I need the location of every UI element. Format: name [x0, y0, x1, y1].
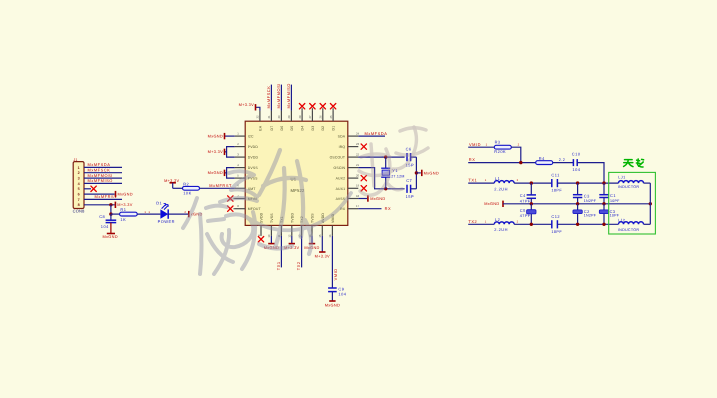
- svg-text:CON8: CON8: [73, 208, 85, 213]
- power port M+3.3V at U1 pin 15: [315, 236, 330, 259]
- no-connect X on U1 top pin: [299, 104, 304, 111]
- power port MxGND at crystal: [422, 170, 439, 176]
- connector J1 CON8 body: [73, 158, 85, 213]
- svg-text:OSCIN: OSCIN: [334, 166, 346, 170]
- svg-text:26: 26: [319, 115, 323, 119]
- node mid rail at C3: [576, 202, 579, 205]
- svg-text:2.2UH: 2.2UH: [494, 227, 508, 232]
- svg-text:1K: 1K: [120, 217, 126, 222]
- wire with net label MxMFMOSI at U1 top pin: [276, 83, 282, 111]
- svg-text:104: 104: [572, 167, 580, 172]
- node top rail at C4: [530, 181, 533, 184]
- svg-text:SDA: SDA: [338, 135, 346, 139]
- power port MxGND below C8: [103, 223, 118, 239]
- svg-text:21: 21: [356, 163, 360, 167]
- svg-text:2: 2: [78, 171, 80, 175]
- LED D1 POWER: [156, 200, 175, 223]
- op-amp U1 body (MF522 reader IC): [245, 121, 348, 225]
- no-connect X on J1 pin 5: [84, 186, 96, 191]
- no-connect X on U1 pin 23 IRQ: [361, 144, 366, 149]
- wire L2 to C12: [514, 220, 552, 224]
- svg-text:6: 6: [78, 193, 80, 197]
- node bottom rail at C3b: [602, 223, 605, 226]
- wire C12 to antenna: [557, 223, 618, 225]
- crystal Y1 27.12M: [381, 157, 405, 189]
- svg-text:MxMFMOSI: MxMFMOSI: [88, 173, 113, 178]
- U1 left pin 3 DVDD: [235, 153, 259, 160]
- no-connect X on U1 pin 19 AUX1: [361, 186, 366, 191]
- svg-text:12: 12: [288, 234, 292, 238]
- svg-text:23: 23: [356, 142, 360, 146]
- svg-text:LJ2: LJ2: [618, 219, 625, 223]
- svg-text:MxGND: MxGND: [484, 201, 499, 206]
- svg-text:28: 28: [298, 115, 302, 119]
- svg-text:VMID: VMID: [333, 268, 338, 280]
- wire net MxMFMISO from J1 pin 4: [84, 178, 122, 183]
- svg-text:MxMFMOSI: MxMFMOSI: [276, 83, 281, 108]
- svg-text:D7: D7: [270, 126, 274, 131]
- connector J1 pin 7 number: [78, 198, 80, 202]
- svg-text:D5: D5: [290, 126, 294, 131]
- svg-text:MxMFRST: MxMFRST: [209, 183, 232, 188]
- svg-text:15P: 15P: [406, 194, 415, 199]
- connector J1 pin 5 number: [78, 187, 80, 191]
- U1 right pin 21 OSCIN: [334, 163, 360, 170]
- svg-text:M+3.3V: M+3.3V: [208, 149, 223, 154]
- svg-text:TX2: TX2: [468, 219, 477, 224]
- resistor R1 1K: [120, 207, 138, 222]
- U1 bottom pin 15 AVDD: [318, 213, 325, 238]
- power port xGND after LED: [189, 211, 203, 217]
- svg-text:INDUCTOR: INDUCTOR: [618, 228, 639, 232]
- capacitor C2 1N2PF shunt: [573, 204, 597, 225]
- node top rail at C1/RX: [602, 181, 605, 184]
- U1 left pin 5 PVSS: [235, 174, 258, 181]
- svg-text:3: 3: [78, 177, 80, 181]
- node bottom rail at C2: [576, 223, 579, 226]
- svg-text:R3: R3: [495, 140, 501, 145]
- node bottom rail at C5: [530, 223, 533, 226]
- node on J1 pin 8 wire: [109, 203, 112, 206]
- U1 top pin 27 D3: [308, 111, 315, 131]
- svg-text:MxGND: MxGND: [103, 234, 118, 239]
- U1 top pin 29 D5: [287, 111, 294, 131]
- wire net MxMFSDA from J1 pin 1: [84, 162, 122, 167]
- svg-text:EA: EA: [258, 125, 262, 130]
- svg-text:D2: D2: [321, 126, 325, 131]
- U1 top pin 26 D2: [319, 111, 326, 131]
- svg-text:MxMFSDA: MxMFSDA: [365, 131, 388, 136]
- svg-text:10PF: 10PF: [610, 214, 620, 218]
- svg-text:TX2: TX2: [296, 261, 301, 270]
- capacitor C4 47PF shunt: [520, 183, 536, 204]
- svg-text:MxMFSDA: MxMFSDA: [88, 162, 111, 167]
- svg-text:16: 16: [328, 234, 332, 238]
- wire OSCOUT rail: [358, 156, 404, 158]
- svg-text:PVDD: PVDD: [248, 145, 259, 149]
- svg-text:POWER: POWER: [158, 219, 175, 224]
- svg-text:I2C: I2C: [248, 135, 254, 139]
- U1 right pin 19 AUX1: [336, 184, 360, 191]
- U1 left pin 2 PVDD: [235, 142, 259, 149]
- connector J1 pin 8 number: [78, 203, 80, 207]
- svg-text:M+3.3V: M+3.3V: [239, 102, 254, 107]
- U1 bottom pin 14 TVSS: [308, 213, 315, 238]
- svg-text:10K: 10K: [183, 191, 192, 196]
- svg-text:27: 27: [308, 115, 312, 119]
- capacitor C11 18PF series: [551, 173, 562, 193]
- power port M+3.3V at R2: [164, 178, 182, 188]
- inductor LJ2 INDUCTOR: [618, 219, 650, 233]
- capacitor C3 1N2PF shunt: [573, 183, 597, 204]
- power port MxGND at U1 pin 1: [208, 133, 235, 139]
- capacitor C1 10PF shunt: [599, 183, 620, 204]
- svg-text:104: 104: [338, 291, 346, 296]
- power port MxGND below C9: [325, 292, 340, 308]
- U1 right pin 20 AUX2: [336, 174, 360, 181]
- svg-text:R20K: R20K: [494, 149, 506, 154]
- capacitor C6 15P: [406, 147, 417, 168]
- wire net TX2 to L2: [468, 219, 494, 224]
- svg-text:OSCOUT: OSCOUT: [330, 156, 346, 160]
- svg-text:MxGND: MxGND: [118, 191, 133, 196]
- wire C11 to antenna nodes: [557, 182, 618, 184]
- wire net MxMFSDA from U1 pin 24: [358, 131, 387, 136]
- svg-text:DVDD: DVDD: [248, 156, 259, 160]
- U1 top pin 30 D6: [277, 111, 284, 131]
- svg-text:MxMFRST: MxMFRST: [95, 194, 118, 199]
- svg-text:INDUCTOR: INDUCTOR: [618, 185, 639, 189]
- svg-text:1N2PF: 1N2PF: [584, 199, 597, 203]
- wire net TX1 to L1: [468, 178, 494, 184]
- svg-text:C11: C11: [551, 173, 559, 178]
- svg-text:MFOUT: MFOUT: [248, 207, 262, 211]
- svg-text:R4: R4: [539, 156, 545, 161]
- U1 bottom pin 11 TX1: [277, 216, 284, 237]
- node mid rail at antenna: [649, 202, 652, 205]
- wire net TX2 from U1 pin 13: [296, 236, 301, 270]
- svg-text:25: 25: [329, 115, 333, 119]
- wire net RX from U1 pin 17: [358, 206, 391, 211]
- wire net TX1 from U1 pin 11: [276, 236, 281, 270]
- U1 bottom pin 12 TVDD: [288, 213, 295, 238]
- wire with net label MxMFSCK at U1 top pin: [266, 85, 272, 111]
- wire R3 to RX rail: [511, 142, 521, 162]
- svg-text:1N2PF: 1N2PF: [584, 214, 597, 218]
- svg-text:TVDD: TVDD: [290, 213, 294, 223]
- node at crystal bottom: [384, 187, 387, 190]
- power port MxGND at U1 pin 14: [304, 236, 319, 250]
- resistor R3 R20K: [494, 140, 511, 154]
- svg-text:10: 10: [267, 234, 271, 238]
- inductor L2 2.2UH: [494, 217, 514, 232]
- capacitor C10 104 series on RX: [572, 152, 581, 173]
- svg-text:TX1: TX1: [276, 261, 281, 270]
- svg-text:MxGND: MxGND: [208, 170, 223, 175]
- svg-text:C8: C8: [99, 214, 105, 219]
- svg-text:C5: C5: [520, 208, 526, 213]
- U1 left pin 1 I2C: [235, 132, 254, 139]
- no-connect X on U1 pin 8: [228, 206, 235, 211]
- svg-text:TVSS: TVSS: [311, 213, 315, 223]
- svg-text:C1: C1: [610, 193, 616, 198]
- svg-text:47PF: 47PF: [520, 214, 531, 218]
- wire junction to R1: [111, 213, 120, 215]
- wire down to LED branch: [110, 205, 112, 214]
- wire net RX rail: [468, 157, 536, 162]
- svg-text:20: 20: [356, 174, 360, 178]
- svg-text:R2: R2: [183, 181, 189, 186]
- svg-text:MxMFMISO: MxMFMISO: [286, 83, 291, 108]
- capacitor C9 104: [328, 286, 347, 296]
- U1 left pin 6 XMT: [235, 184, 257, 191]
- U1 bottom pin 16 VMID: [328, 213, 335, 237]
- antenna box (green): [609, 172, 656, 234]
- U1 right pin 17 RX: [340, 204, 359, 211]
- U1 right pin 23 IRQ: [339, 142, 360, 149]
- svg-text:RX: RX: [385, 206, 392, 211]
- svg-text:VMID: VMID: [469, 142, 481, 147]
- svg-text:C10: C10: [572, 152, 581, 157]
- svg-text:IRQ: IRQ: [339, 145, 346, 149]
- U1 bottom pin 9 SVDD: [257, 212, 264, 236]
- svg-text:DVSS: DVSS: [248, 166, 259, 170]
- no-connect X on U1 pin 20 AUX2: [361, 175, 366, 180]
- wire net VMID to R3: [468, 142, 494, 147]
- svg-text:10PF: 10PF: [610, 199, 620, 203]
- svg-text:C4: C4: [520, 193, 526, 198]
- wire L1 to C11: [514, 179, 552, 183]
- capacitor C5 47PF shunt: [520, 204, 536, 225]
- no-connect X on U1 top pin: [330, 104, 335, 111]
- wire net VMID from U1 pin 16: [332, 236, 337, 288]
- power port M+3.3V at U1 pin 32: [239, 102, 260, 110]
- svg-text:C6: C6: [406, 147, 412, 152]
- U1 left pin 4 DVSS: [235, 163, 259, 170]
- svg-text:TVSS: TVSS: [270, 213, 274, 223]
- node mid rail at C1: [602, 202, 605, 205]
- capacitor C8b 10PF shunt: [599, 204, 619, 225]
- node top rail at C3: [576, 181, 579, 184]
- svg-text:27.12M: 27.12M: [391, 174, 405, 178]
- svg-text:7: 7: [78, 198, 80, 202]
- connector J1 pin 3 number: [78, 177, 80, 181]
- svg-text:8: 8: [78, 203, 80, 207]
- no-connect X on U1 pin 7: [228, 196, 235, 201]
- U1 top pin 25 D1: [329, 111, 336, 131]
- U1 bottom pin 10 TVSS: [267, 213, 274, 238]
- U1 right pin 18 AVSS: [336, 194, 360, 201]
- wire with net label MxMFMISO at U1 top pin: [286, 83, 292, 111]
- svg-text:C12: C12: [551, 214, 560, 219]
- wire C10 to antenna node: [577, 163, 604, 184]
- svg-text:M+3.3V: M+3.3V: [315, 254, 330, 259]
- inductor L1 2.2UH: [494, 176, 514, 192]
- node at R1/C8 junction: [109, 212, 112, 215]
- svg-text:L1: L1: [495, 176, 500, 181]
- inductor LJ1 INDUCTOR: [618, 176, 650, 189]
- svg-text:D1: D1: [156, 200, 162, 205]
- svg-text:MxMFSCK: MxMFSCK: [266, 86, 271, 109]
- power port M+3.3V at J1 pin 8: [84, 202, 133, 208]
- capacitor C8 104: [99, 214, 116, 229]
- wire net MxMFSCK from J1 pin 2: [84, 168, 122, 173]
- svg-text:18: 18: [356, 194, 360, 198]
- wire net MxMFRST from J1 pin 7: [84, 194, 122, 199]
- svg-text:2.2UH: 2.2UH: [494, 186, 508, 191]
- svg-text:104: 104: [101, 224, 109, 229]
- svg-text:C3: C3: [584, 193, 590, 198]
- svg-text:MxGND: MxGND: [424, 170, 439, 175]
- svg-text:RX: RX: [469, 157, 476, 162]
- node at crystal top: [384, 155, 387, 158]
- resistor R4 2.2: [536, 156, 566, 165]
- svg-text:D1: D1: [332, 126, 336, 131]
- svg-text:AUX1: AUX1: [336, 187, 346, 191]
- power port MxGND at U1 pin 10: [264, 236, 279, 250]
- resistor R2 10K: [183, 181, 200, 195]
- svg-text:MxGND: MxGND: [325, 303, 340, 308]
- wire net MxMFMOSI from J1 pin 3: [84, 173, 122, 178]
- svg-text:5: 5: [78, 187, 80, 191]
- connector J1 pin 2 number: [78, 171, 80, 175]
- no-connect X on U1 top pin: [310, 104, 315, 111]
- svg-text:30: 30: [277, 115, 281, 119]
- svg-text:32: 32: [256, 115, 260, 119]
- U1 left pin 8 MFOUT: [235, 204, 262, 211]
- connector J1 pin 6 number: [78, 193, 80, 197]
- U1 left pin 7 MFIN: [235, 194, 257, 201]
- power port MxGND mid rail: [484, 201, 650, 207]
- node R3/RX junction: [519, 161, 522, 164]
- wire D1 to ground: [168, 210, 189, 214]
- svg-text:MxMFMISO: MxMFMISO: [88, 178, 113, 183]
- svg-text:MxGND: MxGND: [208, 133, 223, 138]
- wire R1 to D1: [137, 210, 160, 214]
- svg-text:1: 1: [78, 166, 80, 170]
- wire net MxMFRST into U1 pin 6: [200, 183, 235, 188]
- power port MxGND at U1 pin 18 AVSS: [358, 195, 385, 201]
- connector J1 pin 4 number: [78, 182, 81, 186]
- svg-text:D4: D4: [301, 126, 305, 131]
- svg-text:17: 17: [356, 204, 360, 208]
- U1 right pin 22 OSCOUT: [330, 153, 360, 160]
- svg-text:18PF: 18PF: [551, 189, 562, 193]
- connector J1 pin 1 number: [78, 166, 80, 170]
- wire crystal caps to ground: [415, 157, 421, 189]
- U1 top pin 28 D4: [298, 111, 305, 131]
- capacitor C12 18PF series: [551, 214, 562, 234]
- svg-text:R1: R1: [120, 207, 126, 212]
- U1 top pin 31 D7: [267, 111, 274, 131]
- svg-text:SVDD: SVDD: [260, 212, 264, 223]
- node mid rail at C4/C5: [530, 202, 533, 205]
- svg-text:29: 29: [287, 115, 291, 119]
- power port MxGND at J1 pin 6: [84, 191, 133, 197]
- svg-text:2.2: 2.2: [559, 158, 565, 162]
- U1 right pin 24 SDA: [338, 132, 360, 139]
- svg-text:22: 22: [356, 153, 360, 157]
- svg-text:15: 15: [318, 234, 322, 238]
- watermark calligraphy: [183, 127, 428, 274]
- wire OSCIN route: [358, 168, 404, 189]
- svg-text:L2: L2: [495, 217, 500, 222]
- svg-text:24: 24: [356, 132, 360, 136]
- svg-text:MxMFSCK: MxMFSCK: [88, 168, 111, 173]
- svg-text:18PF: 18PF: [551, 230, 562, 234]
- power port M+3.3V bracket to U1 pins 2,3: [208, 147, 235, 158]
- no-connect X on U1 top pin: [320, 104, 325, 111]
- power port MxGND bracket to U1 pins 4,5: [208, 168, 235, 179]
- wire antenna right side: [649, 183, 651, 224]
- svg-text:TX1: TX1: [468, 178, 477, 183]
- svg-text:D6: D6: [280, 126, 284, 131]
- svg-text:AUX2: AUX2: [336, 177, 346, 181]
- U1 bottom pin 13 TX2: [297, 216, 304, 238]
- no-connect X on U1 pin 9: [258, 237, 263, 242]
- svg-text:C7: C7: [406, 178, 412, 183]
- svg-text:19: 19: [356, 184, 360, 188]
- power port M+3.3V at U1 pin 12: [284, 236, 299, 250]
- label 天线 (antenna title): [624, 159, 644, 167]
- capacitor C7 15P: [406, 178, 417, 199]
- svg-text:LJ1: LJ1: [618, 176, 625, 180]
- svg-text:47PF: 47PF: [520, 199, 531, 203]
- wire R4 to C10: [553, 162, 574, 164]
- svg-text:D3: D3: [311, 126, 315, 131]
- U1 top pin 32 EA: [256, 111, 263, 131]
- svg-text:31: 31: [267, 115, 271, 119]
